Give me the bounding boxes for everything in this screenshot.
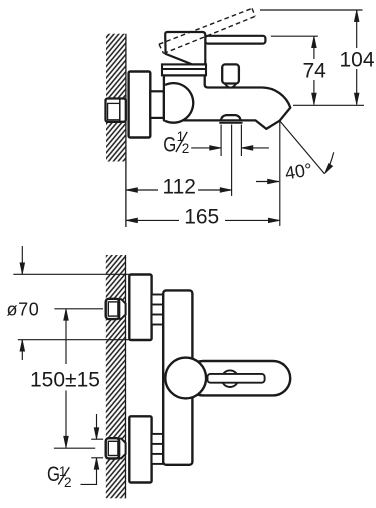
wall surface line xyxy=(125,34,127,227)
union nut xyxy=(150,91,164,118)
40 deg curved arrowhead xyxy=(324,163,332,173)
escutcheon top xyxy=(129,275,151,341)
svg-text:2: 2 xyxy=(64,475,72,490)
G1/2 top xyxy=(163,129,189,156)
svg-text:150±15: 150±15 xyxy=(30,368,100,391)
G1/2 bottom xyxy=(47,463,72,490)
diverter button xyxy=(224,83,236,88)
body + spout silhouette xyxy=(164,75,290,129)
svg-text:104: 104 xyxy=(340,48,375,71)
body xyxy=(163,290,192,464)
handle wedge xyxy=(165,32,205,64)
wall hatch xyxy=(106,34,126,162)
svg-text:2: 2 xyxy=(182,141,190,156)
150 dim xyxy=(65,309,67,364)
112 dim xyxy=(126,189,158,191)
inlet fitting top xyxy=(106,299,126,319)
escutcheon flange xyxy=(129,72,151,138)
screw circle xyxy=(222,370,239,387)
lever xyxy=(186,361,290,395)
wall inlet fitting xyxy=(106,99,126,122)
handle collar xyxy=(162,64,206,75)
pivot circle xyxy=(165,358,206,399)
svg-text:112: 112 xyxy=(163,175,196,198)
40 degree lines xyxy=(280,121,325,174)
svg-text:74: 74 xyxy=(303,60,327,83)
G half dim arrows xyxy=(191,147,221,149)
104 dim xyxy=(356,10,358,48)
texts top view xyxy=(163,48,375,228)
nipple top xyxy=(152,295,164,325)
wall hatch xyxy=(106,255,126,498)
74 dim xyxy=(313,36,315,59)
shower outlet dome xyxy=(221,115,241,120)
svg-text:G: G xyxy=(163,133,176,156)
svg-text:165: 165 xyxy=(184,205,219,228)
escutcheon bottom xyxy=(129,416,151,482)
165 dim xyxy=(126,219,179,221)
ball housing arc xyxy=(165,83,193,123)
svg-text:ø70: ø70 xyxy=(7,300,40,320)
extension lines xyxy=(260,9,363,11)
G half bottom ticks xyxy=(91,438,103,440)
inlet fitting bottom xyxy=(106,438,126,458)
svg-text:40°: 40° xyxy=(283,159,313,183)
slot xyxy=(208,374,265,383)
dashed raised lever xyxy=(159,8,255,53)
dia70 arrows xyxy=(21,246,23,274)
shower-hose nipple base band xyxy=(219,122,242,124)
handle lever bar xyxy=(205,36,265,44)
nipple bottom xyxy=(152,434,164,464)
